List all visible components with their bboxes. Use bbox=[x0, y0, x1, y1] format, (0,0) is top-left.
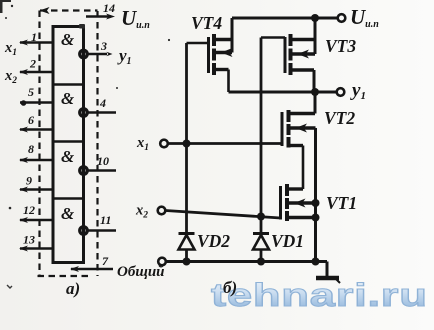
svg-text:13: 13 bbox=[23, 233, 35, 247]
svg-text:VD2: VD2 bbox=[197, 231, 230, 251]
wire VT4 source down to y1 rail bbox=[227, 70, 230, 93]
svg-text:10: 10 bbox=[97, 154, 109, 168]
+U supply rail bbox=[232, 17, 338, 20]
y1 terminal bbox=[337, 88, 345, 96]
transistor VT4 bbox=[212, 34, 216, 75]
output line pin 3 bbox=[88, 53, 108, 56]
pin 1 bbox=[20, 41, 54, 44]
svg-text:3: 3 bbox=[100, 39, 107, 53]
diode VD2 bbox=[179, 235, 195, 250]
wire VT3 drain/substrate to +U rail bbox=[314, 18, 317, 54]
wire VT2 source down to VT1 drain bbox=[302, 146, 305, 190]
junction VT1 source bbox=[312, 214, 320, 222]
ground vertical (VT2 substrate, VT1 substrate/source to common rail) bbox=[314, 128, 317, 262]
junction VD2 on rail bbox=[183, 258, 191, 266]
svg-text:2: 2 bbox=[29, 57, 36, 71]
pin 14 lead bbox=[86, 15, 111, 18]
svg-text:x2: x2 bbox=[4, 68, 17, 86]
svg-text:VT4: VT4 bbox=[191, 13, 222, 33]
output line pin 10 bbox=[88, 169, 117, 172]
junction VT3/VT2 on y1 rail bbox=[311, 88, 319, 96]
common (ground) rail bbox=[166, 260, 327, 263]
svg-text:Uи.п: Uи.п bbox=[121, 6, 150, 31]
junction x2/riser bbox=[257, 213, 265, 221]
VT4 gate lead bbox=[187, 42, 209, 45]
ground symbol bbox=[326, 262, 329, 278]
svg-text:5: 5 bbox=[28, 85, 34, 99]
svg-text:7: 7 bbox=[102, 254, 109, 268]
dashed package boundary bbox=[38, 11, 98, 277]
svg-text:б): б) bbox=[223, 278, 237, 297]
svg-text:4: 4 bbox=[99, 96, 106, 110]
junction x1/riser bbox=[183, 140, 191, 148]
output bubble gate2 bbox=[80, 109, 87, 116]
svg-text:VT2: VT2 bbox=[324, 108, 355, 128]
pin 12 bbox=[20, 219, 54, 222]
svg-text:&: & bbox=[61, 147, 75, 166]
output bubble gate1 bbox=[80, 50, 87, 57]
common terminal bbox=[158, 258, 166, 266]
svg-text:8: 8 bbox=[28, 142, 34, 156]
x2 input line bbox=[166, 211, 281, 219]
VT3 gate lead from x2 riser bbox=[261, 36, 285, 39]
transistor VT2 bbox=[287, 110, 291, 148]
wire VT3 source down to y1 rail bbox=[313, 70, 316, 92]
svg-text:12: 12 bbox=[23, 203, 35, 217]
pin 13 bbox=[20, 247, 54, 250]
pin 2 bbox=[20, 71, 54, 74]
svg-text:14: 14 bbox=[103, 1, 115, 15]
x1 riser wire (to VT4 gate and VD2) bbox=[185, 43, 188, 262]
watermark tehnari.ru bbox=[211, 277, 434, 314]
svg-text:VT3: VT3 bbox=[325, 36, 356, 56]
svg-text:&: & bbox=[61, 89, 75, 108]
arrow on top dashed edge bbox=[40, 7, 50, 14]
pin 7 lead bbox=[71, 268, 113, 271]
gate dividers bbox=[53, 83, 84, 86]
junction VT1 substrate bbox=[312, 199, 320, 207]
svg-text:9: 9 bbox=[26, 174, 32, 188]
svg-text:x1: x1 bbox=[136, 135, 149, 153]
wire VT4 drain to +U rail bbox=[231, 18, 234, 53]
svg-text:11: 11 bbox=[100, 213, 111, 227]
svg-text:y1: y1 bbox=[117, 46, 132, 67]
scan noise marks bbox=[0, 0, 170, 288]
svg-text:&: & bbox=[61, 30, 75, 49]
x2 terminal bbox=[158, 207, 166, 215]
transistor VT1 bbox=[285, 184, 289, 221]
svg-text:1: 1 bbox=[31, 30, 37, 44]
junction ground vertical on rail bbox=[312, 258, 320, 266]
output bubble gate3 bbox=[80, 167, 87, 174]
svg-text:&: & bbox=[61, 204, 75, 223]
pin 9 bbox=[20, 188, 54, 191]
pin 8 bbox=[20, 159, 54, 162]
svg-text:VD1: VD1 bbox=[271, 231, 304, 251]
transistor VT3 bbox=[289, 34, 293, 75]
junction VD1 on rail bbox=[257, 258, 265, 266]
svg-text:VT1: VT1 bbox=[326, 193, 357, 213]
y1 output rail bbox=[229, 91, 337, 94]
pin 5 bbox=[20, 101, 54, 104]
svg-text:y1: y1 bbox=[350, 80, 366, 102]
junction VT3 drain on +U rail bbox=[311, 14, 319, 22]
output line pin 4 bbox=[88, 111, 117, 114]
diode VD1 bbox=[253, 235, 269, 250]
wire VT2 drain up to y1 rail bbox=[314, 92, 317, 114]
IC body box bbox=[53, 27, 84, 263]
svg-text:6: 6 bbox=[28, 113, 34, 127]
x1 input line bbox=[168, 142, 282, 145]
x2 riser wire (to VT3 gate and VD1) bbox=[260, 38, 263, 262]
output bubble gate4 bbox=[80, 227, 87, 234]
pin 6 bbox=[20, 128, 54, 131]
svg-text:Общий: Общий bbox=[117, 264, 165, 280]
svg-text:а): а) bbox=[66, 279, 80, 298]
svg-text:Uи.п: Uи.п bbox=[350, 5, 379, 30]
svg-text:x1: x1 bbox=[4, 40, 17, 58]
+U terminal bbox=[338, 14, 346, 22]
x1 terminal bbox=[160, 140, 168, 148]
svg-text:x2: x2 bbox=[135, 203, 148, 221]
output line pin 11 bbox=[88, 229, 117, 232]
